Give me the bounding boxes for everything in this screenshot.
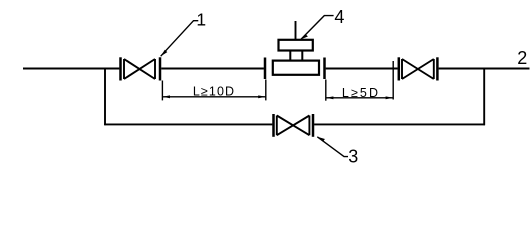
valve V1 body (gate valve bowtie): [124, 59, 155, 79]
dimension D1 extension line left (at V1 outlet flange): [161, 81, 163, 101]
flow meter FE right pipe flange: [323, 58, 326, 80]
valve V3 left flange: [272, 114, 275, 137]
svg-text:2: 2: [517, 48, 527, 68]
wire: pipe between V1 and flow meter: [161, 68, 264, 70]
dimension D1 line: [162, 96, 265, 98]
leader 1 arrowhead: [161, 50, 168, 56]
svg-text:3: 3: [348, 147, 358, 167]
svg-text:1: 1: [196, 10, 206, 30]
wire: main pipe inlet segment: [23, 68, 119, 70]
valve V2 right flange: [436, 57, 439, 80]
leader line to label 3: [317, 137, 348, 157]
flow meter FE body: [273, 61, 319, 75]
dimension D2 line: [326, 97, 393, 99]
flow meter FE neck: [290, 51, 302, 61]
dimension D1 extension line right (at meter inlet flange): [265, 80, 267, 101]
dimension D2 arrow right: [386, 96, 394, 99]
valve V2 body (gate valve bowtie): [402, 59, 434, 79]
dimension D1 arrow left: [162, 95, 170, 98]
valve V1 left flange: [119, 57, 122, 80]
leader line to label 4: [301, 16, 334, 40]
leader 3 arrowhead: [317, 137, 325, 142]
leader 4 arrowhead: [301, 34, 308, 39]
wire: bypass right down leg: [483, 69, 485, 126]
wire: bypass bottom line left segment: [104, 123, 272, 125]
wire: bypass left down leg: [104, 69, 106, 126]
leader line to label 1: [161, 21, 199, 57]
svg-text:4: 4: [334, 7, 344, 27]
valve V1 right flange: [159, 57, 162, 80]
dimension D2 extension line right (at V2 inlet flange): [392, 61, 394, 100]
flow meter FE transmitter box: [279, 40, 313, 51]
valve V2 left flange: [398, 57, 401, 80]
flow meter FE antenna line: [295, 21, 297, 40]
dimension D2 extension line left (at meter outlet flange): [325, 80, 327, 101]
valve V3 right flange: [312, 114, 315, 137]
flow meter FE left pipe flange: [264, 58, 267, 80]
svg-text:L≥10D: L≥10D: [193, 85, 235, 99]
dimension D2 arrow left: [326, 96, 334, 99]
valve V3 body (gate valve bowtie): [277, 116, 310, 136]
wire: pipe between flow meter and V2: [326, 68, 398, 70]
svg-text:L≥5D: L≥5D: [342, 86, 380, 100]
dimension D1 arrow right: [258, 95, 266, 98]
wire: bypass bottom line right segment: [314, 123, 485, 125]
wire: main pipe outlet segment: [439, 68, 530, 70]
